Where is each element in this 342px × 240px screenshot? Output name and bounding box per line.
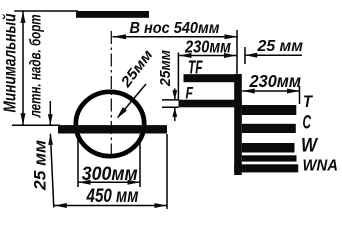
450mm dimension [166, 134, 168, 209]
WNA bar (thin) [242, 155, 297, 161]
comb vertical bar [234, 74, 242, 175]
vertical centerline (dash-dot) [110, 31, 112, 160]
svg-text:450 мм: 450 мм [86, 185, 139, 207]
extension line 230 lower right [299, 86, 301, 104]
svg-text:Минимальный: Минимальный [0, 13, 19, 112]
svg-text:230мм: 230мм [184, 37, 231, 57]
230mm upper dimension [179, 55, 237, 57]
svg-text:TF: TF [188, 58, 203, 78]
bottom bar [234, 164, 298, 172]
band thickness dimension 25mm (left) [49, 101, 51, 125]
svg-text:25 мм: 25 мм [31, 140, 50, 191]
svg-text:25 мм: 25 мм [256, 38, 303, 55]
svg-text:300мм: 300мм [82, 163, 139, 185]
summer line extension (thin) [12, 124, 60, 126]
svg-text:летн. надв. борт: летн. надв. борт [28, 14, 45, 118]
svg-text:W: W [301, 136, 319, 157]
F thickness dimension 25mm [174, 89, 176, 100]
svg-text:Т: Т [303, 92, 313, 111]
deck line mark (thick bar) [76, 11, 149, 18]
dimension line: B noc 540mm [113, 36, 239, 38]
svg-text:WNA: WNA [303, 158, 339, 175]
F bar edge extension lines [162, 99, 179, 101]
svg-text:В нос 540мм: В нос 540мм [130, 20, 220, 37]
arrow to band (25mm diagonal) [118, 84, 146, 117]
TF bar [184, 74, 236, 82]
svg-text:230мм: 230мм [249, 71, 301, 91]
230mm lower dimension [242, 90, 299, 92]
deck line (thin) [14, 10, 78, 12]
freeboard dimension line with arrows [22, 11, 24, 125]
W bar [242, 143, 295, 153]
300mm dimension [77, 135, 79, 188]
svg-text:С: С [303, 113, 312, 134]
extension line comb bar right edge [244, 47, 246, 64]
svg-text:25мм: 25мм [157, 50, 174, 87]
25mm upper dimension arrow [245, 54, 302, 56]
F bar [179, 100, 242, 108]
load line disk (circle) [76, 92, 144, 156]
extension line 230 upper left / F bar start [177, 53, 179, 100]
svg-text:F: F [186, 84, 194, 102]
band through disk [58, 125, 167, 133]
extension line comb bar left edge [236, 30, 238, 74]
C bar [242, 124, 296, 133]
T bar [242, 105, 296, 115]
